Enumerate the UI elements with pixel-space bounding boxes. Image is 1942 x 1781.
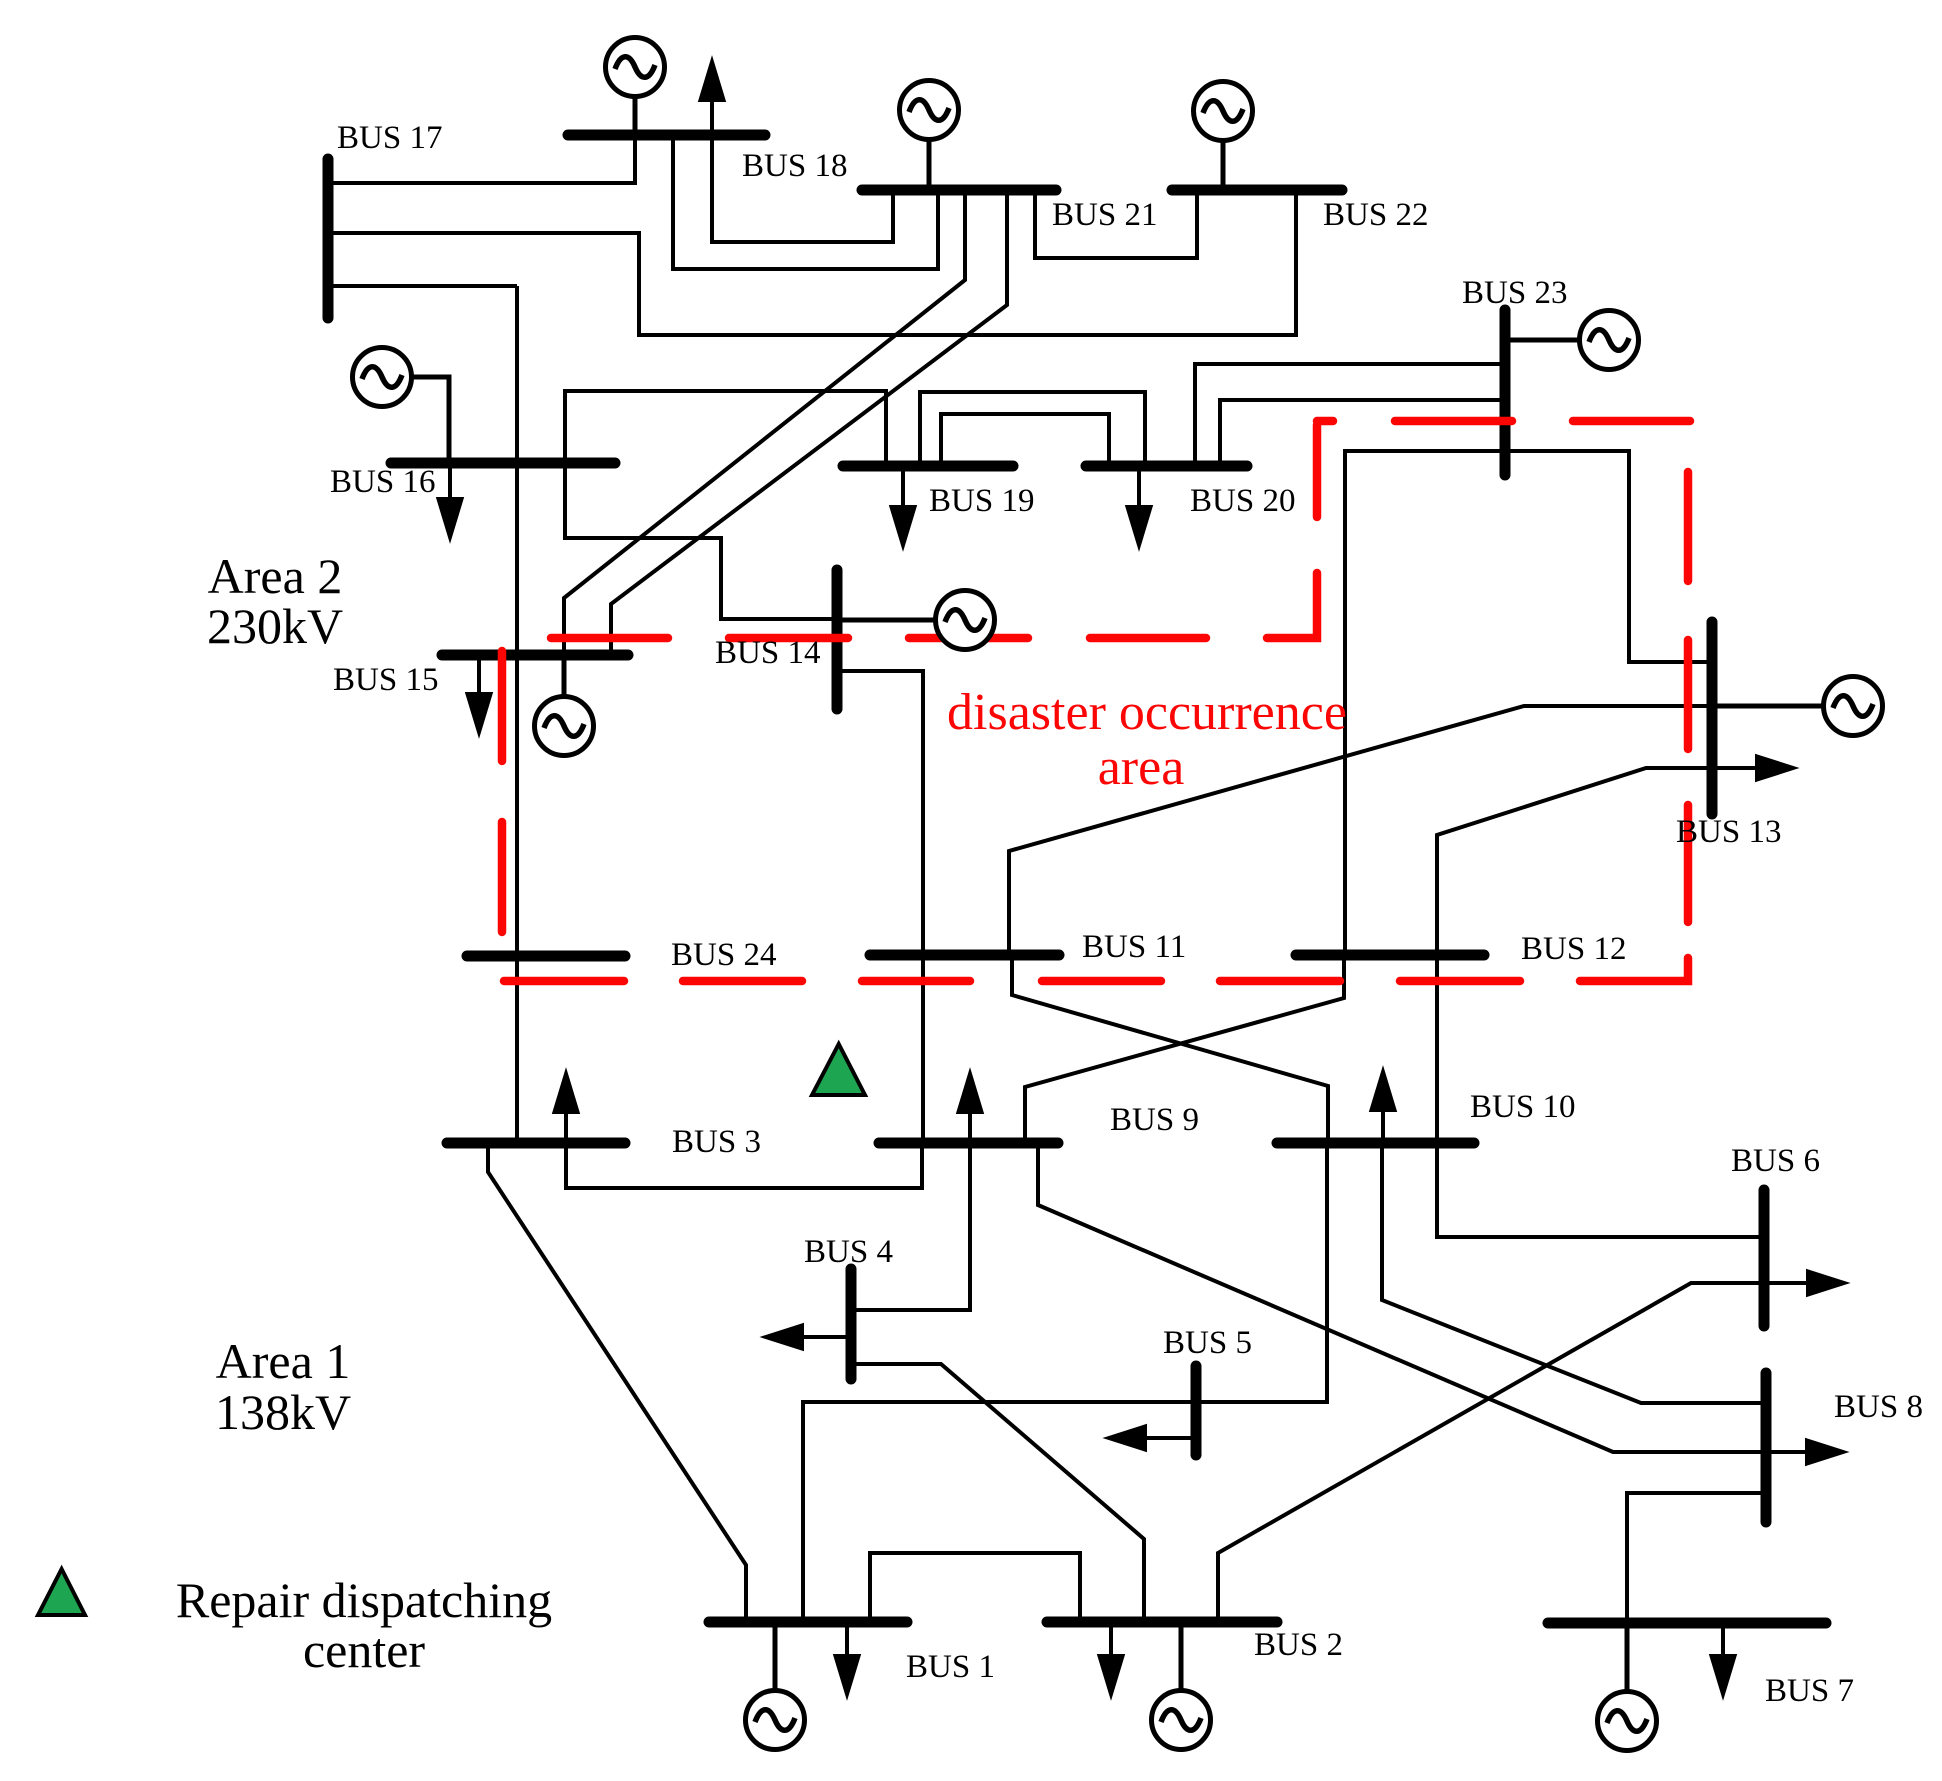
wire vertical 16-15-24-3 (lines 15-16, 15-24, 3-24)	[515, 286, 519, 1143]
wire line 6-10	[1437, 1143, 1764, 1237]
wire line 2-4	[851, 1364, 1144, 1622]
bus BUS 23	[1500, 310, 1511, 475]
legend triangle	[38, 1569, 85, 1615]
svg-text:center: center	[303, 1622, 425, 1678]
svg-text:BUS 13: BUS 13	[1676, 814, 1781, 850]
svg-text:BUS 23: BUS 23	[1462, 275, 1567, 311]
red dash boundary left edge x=502	[498, 822, 507, 932]
bus BUS 18	[568, 130, 765, 141]
bus BUS 10	[1277, 1138, 1474, 1149]
wire line 11-13	[1009, 706, 1712, 955]
wire line 11-14	[837, 671, 923, 955]
generator G7 at BUS 7	[1598, 1623, 1657, 1751]
wire line 3-9	[566, 1143, 922, 1188]
load arrow down at BUS 19	[892, 466, 915, 545]
wire line 9-12	[1025, 955, 1344, 1143]
svg-text:BUS 7: BUS 7	[1765, 1673, 1854, 1709]
bus BUS 2	[1047, 1617, 1277, 1628]
svg-text:BUS 12: BUS 12	[1521, 931, 1626, 967]
svg-text:area: area	[1098, 739, 1185, 796]
load arrow down at BUS 7	[1712, 1623, 1735, 1694]
load arrow down at BUS 20	[1128, 466, 1151, 545]
bus BUS 7	[1548, 1618, 1826, 1629]
bus BUS 20	[1086, 461, 1247, 472]
svg-text:BUS 17: BUS 17	[337, 120, 442, 156]
red dash boundary bottom edge y=981	[1400, 977, 1520, 986]
svg-text:BUS 6: BUS 6	[1731, 1143, 1820, 1179]
load arrow up at BUS 3	[555, 1074, 578, 1143]
load arrow down at BUS 2	[1100, 1622, 1123, 1694]
svg-text:BUS 14: BUS 14	[715, 635, 820, 671]
bus BUS 12	[1296, 950, 1484, 961]
wire line 17-18	[328, 135, 635, 183]
wire line 1-5	[803, 1402, 1196, 1622]
wire line 18-21 circuit 2	[673, 135, 938, 269]
generator G22 at BUS 22	[1194, 82, 1253, 191]
svg-text:BUS 3: BUS 3	[672, 1124, 761, 1160]
bus bars	[328, 135, 1826, 1623]
svg-text:BUS 21: BUS 21	[1052, 197, 1157, 233]
load arrow up at BUS 9	[959, 1074, 982, 1143]
load arrow down at BUS 15	[468, 655, 491, 732]
red dash boundary corner x=1317	[1267, 573, 1317, 638]
svg-text:138kV: 138kV	[215, 1384, 351, 1440]
generator G23 at BUS 23	[1505, 311, 1639, 370]
generator G13 at BUS 13	[1712, 677, 1883, 736]
svg-text:Repair dispatching: Repair dispatching	[176, 1572, 552, 1628]
bus BUS 1	[709, 1617, 907, 1628]
svg-text:BUS 15: BUS 15	[333, 662, 438, 698]
wire line 7-8	[1627, 1493, 1766, 1623]
bus BUS 15	[442, 650, 628, 661]
bus BUS 13	[1707, 622, 1718, 814]
bus BUS 4	[846, 1269, 857, 1379]
bus BUS 11	[870, 950, 1059, 961]
generators	[353, 38, 1883, 1751]
bus BUS 16	[391, 458, 615, 469]
svg-text:BUS 4: BUS 4	[804, 1234, 893, 1270]
bus BUS 21	[862, 185, 1056, 196]
load arrow left at BUS 5	[1109, 1427, 1196, 1450]
load arrow left at BUS 4	[766, 1326, 851, 1349]
load arrows	[439, 62, 1845, 1694]
svg-text:BUS 5: BUS 5	[1163, 1325, 1252, 1361]
wire line 19-20 circuit 1	[920, 392, 1145, 466]
wire line 5-10	[1196, 1143, 1327, 1402]
transmission line wires	[328, 135, 1812, 1623]
svg-text:BUS 11: BUS 11	[1082, 929, 1186, 965]
svg-text:BUS 8: BUS 8	[1834, 1389, 1923, 1425]
bus BUS 19	[843, 461, 1013, 472]
red dash boundary right edge x=1688	[1684, 472, 1693, 581]
red dash boundary top-left horizontal y=638	[551, 634, 668, 643]
wire line 20-23 circuit 2	[1220, 400, 1505, 466]
svg-text:Area 2: Area 2	[208, 548, 343, 604]
wire line 16-19	[565, 391, 886, 466]
wire line 1-2	[870, 1553, 1080, 1622]
wire line 9-11	[921, 955, 925, 1143]
wire line 15-21 circuit 2	[611, 190, 1007, 655]
svg-text:BUS 20: BUS 20	[1190, 483, 1295, 519]
load arrow right at BUS 13	[1712, 757, 1793, 780]
bus BUS 22	[1172, 185, 1342, 196]
svg-text:230kV: 230kV	[207, 598, 343, 654]
wire line 12-13	[1437, 768, 1712, 955]
svg-text:BUS 18: BUS 18	[742, 148, 847, 184]
bus BUS 3	[447, 1138, 625, 1149]
wire line 15-21 circuit 1	[564, 190, 965, 655]
bus BUS 24	[467, 951, 625, 962]
generator G1 at BUS 1	[746, 1622, 805, 1750]
wire line 21-22	[1035, 190, 1197, 258]
wire line 16-17	[328, 284, 517, 288]
svg-text:Area 1: Area 1	[216, 1333, 351, 1389]
wire line 20-23 circuit 1	[1195, 364, 1505, 466]
bus BUS 8	[1761, 1373, 1772, 1522]
wire line 8-9	[1038, 1143, 1811, 1452]
bus BUS 17	[323, 159, 334, 318]
generator G2 at BUS 2	[1152, 1622, 1211, 1750]
svg-text:BUS 1: BUS 1	[906, 1649, 995, 1685]
wire line 17-22	[328, 190, 1296, 335]
svg-text:BUS 2: BUS 2	[1254, 1627, 1343, 1663]
bus BUS 6	[1759, 1190, 1770, 1326]
load arrow up at BUS 10	[1372, 1072, 1395, 1143]
disaster occurrence area dashed red boundary	[502, 421, 1690, 981]
generator G16 at BUS 16	[353, 348, 450, 464]
wire line 1-3	[488, 1143, 746, 1622]
wire line 18-21 circuit 1	[712, 135, 893, 242]
wire line 10-11	[1012, 955, 1328, 1143]
wire line 4-9	[851, 1143, 970, 1310]
load arrow right at BUS 6	[1808, 1272, 1844, 1295]
wire line 13-23	[1505, 451, 1712, 662]
bus BUS 5	[1191, 1366, 1202, 1455]
wire line 12-23	[1345, 451, 1505, 955]
svg-text:BUS 10: BUS 10	[1470, 1089, 1575, 1125]
wire line 2-6	[1218, 1283, 1812, 1622]
svg-text:BUS 22: BUS 22	[1323, 197, 1428, 233]
wire line 8-10	[1382, 1143, 1766, 1403]
load arrow right at BUS 8	[1807, 1441, 1843, 1464]
bus BUS 9	[879, 1138, 1058, 1149]
generator G18 at BUS 18	[606, 38, 665, 136]
load arrow down at BUS 16	[439, 463, 462, 537]
svg-text:disaster occurrence: disaster occurrence	[947, 684, 1347, 741]
svg-text:BUS 24: BUS 24	[671, 937, 776, 973]
wire line 14-16	[565, 463, 837, 619]
svg-text:BUS 9: BUS 9	[1110, 1102, 1199, 1138]
generator G15 at BUS 15	[535, 655, 594, 756]
load arrow down at BUS 1	[836, 1622, 859, 1694]
red dash boundary top edge y=421	[1317, 417, 1333, 426]
generator G21 at BUS 21	[900, 81, 959, 191]
bus BUS 14	[832, 570, 843, 709]
load arrow up at BUS 18	[701, 62, 724, 135]
generator G14 at BUS 14	[837, 591, 995, 650]
svg-text:BUS 16: BUS 16	[330, 464, 435, 500]
red dash boundary bottom-right corner	[1580, 958, 1688, 981]
wire line 10-12	[1435, 955, 1439, 1143]
svg-text:BUS 19: BUS 19	[929, 483, 1034, 519]
repair dispatching center triangle (in diagram)	[812, 1044, 865, 1095]
wire line 19-20 circuit 2	[941, 414, 1109, 466]
